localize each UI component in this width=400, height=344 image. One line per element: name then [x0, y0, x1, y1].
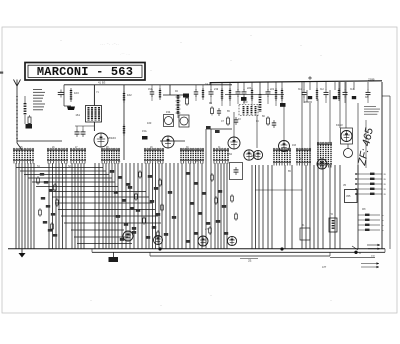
svg-text:163: 163: [147, 121, 152, 125]
svg-text:A77: A77: [205, 228, 210, 231]
svg-text:220: 220: [247, 87, 252, 90]
svg-text:V65: V65: [346, 195, 351, 198]
svg-text:MARCONI - 563: MARCONI - 563: [37, 65, 133, 79]
svg-text:103: 103: [74, 91, 79, 95]
svg-text:W163: W163: [108, 136, 116, 140]
svg-text:221: 221: [270, 88, 275, 91]
svg-text:A77: A77: [322, 266, 327, 269]
svg-text:163: 163: [292, 144, 297, 147]
svg-text:219: 219: [214, 88, 219, 91]
svg-text:15A: 15A: [142, 129, 147, 133]
svg-text:154: 154: [166, 110, 171, 114]
svg-text:2F3: 2F3: [243, 100, 248, 104]
svg-text:41 B3: 41 B3: [98, 81, 106, 85]
svg-text:VR: VR: [343, 185, 347, 187]
svg-text:25.: 25.: [248, 259, 252, 263]
svg-text:.-- ...: .-- ...: [120, 51, 130, 57]
svg-text:162: 162: [127, 93, 132, 97]
svg-text:238B: 238B: [368, 78, 375, 82]
svg-text:161: 161: [75, 113, 80, 117]
svg-text:... -. .-..: ... -. .-..: [100, 41, 119, 47]
svg-text:K163: K163: [336, 123, 343, 127]
